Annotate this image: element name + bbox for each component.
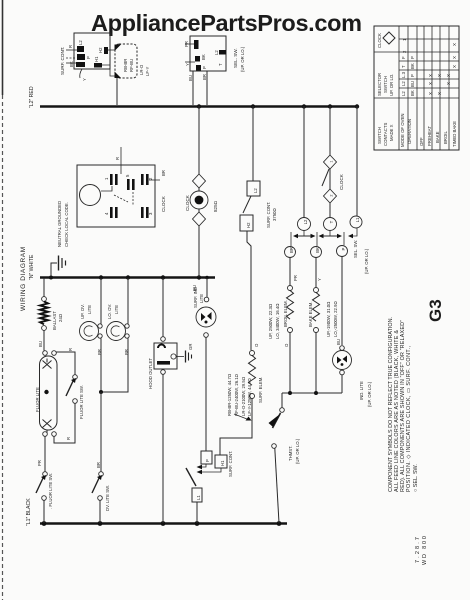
switch DV LITE SW — [92, 392, 110, 523]
svg-text:RB-BR-1250W, 44.7Ω: RB-BR-1250W, 44.7Ω — [227, 373, 232, 416]
selector terminals L2 T L1 — [298, 106, 363, 231]
svg-text:X: X — [446, 82, 451, 85]
svg-text:X: X — [452, 65, 457, 68]
svg-text:LO,-2500W, 22.9Ω: LO,-2500W, 22.9Ω — [333, 301, 338, 337]
svg-text:BAKE: BAKE — [435, 131, 440, 143]
svg-text:BK: BK — [410, 90, 415, 96]
clock motor branch 825ohm — [185, 106, 218, 277]
wire N neutral bus — [40, 276, 215, 279]
wire element to L2 bus — [116, 78, 118, 105]
svg-text:24Ω: 24Ω — [58, 313, 63, 322]
svg-text:SEL. SW.: SEL. SW. — [233, 48, 238, 68]
notes text block — [388, 317, 419, 492]
svg-text:L2: L2 — [214, 50, 219, 55]
svg-text:1: 1 — [330, 160, 334, 162]
svg-text:RB-BR: RB-BR — [123, 59, 128, 72]
resistor SURF ELEM — [249, 343, 264, 403]
svg-text:SWITCH: SWITCH — [377, 127, 382, 144]
svg-text:. FLUOR LITE SW.: . FLUOR LITE SW. — [48, 473, 53, 509]
svg-text:X: X — [437, 92, 442, 95]
svg-text:NEUTRAL GROUNDED: NEUTRAL GROUNDED — [57, 201, 62, 247]
svg-text:L1: L1 — [196, 495, 201, 500]
svg-text:BR: BR — [97, 349, 102, 355]
svg-text:R: R — [68, 348, 73, 351]
svg-text:MADE X: MADE X — [389, 124, 394, 141]
selector wiper arrows — [285, 228, 370, 274]
svg-text:H1: H1 — [220, 460, 225, 466]
switch FLUOR LITE SW main — [36, 436, 53, 523]
svg-text:UP,-1900W, 31.0Ω: UP,-1900W, 31.0Ω — [326, 301, 331, 337]
svg-text:CLOCK: CLOCK — [161, 195, 166, 212]
svg-text:PR: PR — [293, 275, 298, 281]
svg-text:G3: G3 — [426, 299, 445, 322]
svg-text:L2: L2 — [253, 188, 258, 193]
svg-text:BR: BR — [161, 170, 166, 176]
wire thermostat link — [282, 392, 342, 394]
svg-text:LF-Y: LF-Y — [145, 67, 150, 76]
svg-text:“L2” RED: “L2” RED — [29, 86, 35, 108]
svg-text:X: X — [428, 82, 433, 85]
svg-text:SURF. CONT.: SURF. CONT. — [266, 202, 271, 229]
selector switch SEL.SW box — [184, 36, 245, 72]
resistor BROIL ELEM — [268, 258, 298, 394]
svg-text:(UP. OR LO.): (UP. OR LO.) — [364, 248, 369, 274]
svg-text:UP. OV.: UP. OV. — [80, 304, 85, 319]
svg-text:“L1” BLACK: “L1” BLACK — [26, 498, 32, 526]
ballast BALLAST 24ohm — [38, 278, 63, 351]
svg-text:F: F — [401, 56, 406, 59]
svg-text:H2: H2 — [246, 222, 251, 228]
svg-text:X: X — [452, 56, 457, 59]
svg-text:LITE: LITE — [114, 305, 119, 314]
svg-text:SURF. CONT.: SURF. CONT. — [60, 47, 65, 75]
svg-text:SURF. ELEM.: SURF. ELEM. — [258, 376, 263, 403]
svg-text:FLUOR LITE: FLUOR LITE — [35, 387, 40, 412]
svg-text:CLOCK: CLOCK — [339, 173, 344, 190]
surf unit control SURF.CONT #1 — [60, 33, 110, 81]
svg-text:P: P — [205, 459, 210, 462]
surf control bottom contacts — [186, 337, 252, 523]
pin H2 — [104, 47, 108, 54]
svg-text:MODE OF OVEN: MODE OF OVEN — [400, 114, 405, 147]
svg-text:Y: Y — [317, 278, 322, 281]
svg-text:PREHEAT: PREHEAT — [427, 126, 432, 146]
svg-text:HOOD OUTLET: HOOD OUTLET — [148, 358, 153, 389]
svg-text:T: T — [218, 63, 223, 66]
svg-text:Y: Y — [185, 63, 190, 66]
resistor BAKE ELEM — [308, 258, 338, 394]
svg-text:BU: BU — [188, 75, 193, 81]
svg-text:WIRING DIAGRAM: WIRING DIAGRAM — [20, 246, 27, 311]
thermostat THMST — [269, 393, 301, 523]
svg-text:LO. OV.: LO. OV. — [107, 304, 112, 319]
wire BR sel sw to bus — [206, 71, 208, 105]
svg-text:SELECTOR: SELECTOR — [377, 73, 382, 96]
svg-text:X: X — [437, 74, 442, 77]
svg-text:SEL. SW.: SEL. SW. — [353, 240, 358, 258]
svg-text:P: P — [86, 56, 91, 59]
clock terminal box CLOCK — [77, 147, 166, 227]
svg-text:RF-BU: RF-BU — [129, 59, 134, 72]
outlet HOOD OUTLET — [148, 278, 193, 523]
svg-text:P: P — [202, 66, 207, 69]
svg-text:LR-O-2100W, 29.5Ω: LR-O-2100W, 29.5Ω — [241, 376, 246, 416]
lamp LO OV LITE — [99, 278, 129, 394]
svg-text:LITE: LITE — [87, 305, 92, 314]
svg-text:P: P — [341, 247, 346, 250]
switch FLUOR LITE SW right branch — [54, 348, 84, 443]
wire L2 RED bus — [40, 105, 358, 108]
element ratings callout — [227, 373, 252, 420]
svg-text:L2: L2 — [401, 81, 406, 86]
heater element loop RB/RF — [102, 44, 150, 78]
pin H1 — [94, 63, 102, 68]
svg-text:R: R — [66, 437, 71, 440]
svg-text:BROIL: BROIL — [443, 130, 448, 144]
svg-text:BALLAST: BALLAST — [52, 311, 57, 330]
svg-text:GR: GR — [188, 344, 193, 350]
lamp UP OV LITE — [80, 278, 103, 392]
svg-text:LITE: LITE — [199, 294, 204, 303]
svg-text:X: X — [428, 74, 433, 77]
svg-text:UP, 2500W, 22.3Ω: UP, 2500W, 22.3Ω — [268, 303, 273, 339]
svg-text:LF-Y-1250W, 44.7Ω: LF-Y-1250W, 44.7Ω — [247, 378, 252, 416]
svg-text:3750Ω: 3750Ω — [272, 207, 277, 221]
clock switch column — [322, 106, 344, 217]
svg-text:BK: BK — [410, 63, 415, 69]
lamp SURF IND LITE — [193, 278, 216, 337]
svg-text:THMST.: THMST. — [288, 445, 293, 461]
wire L1 BLACK bus — [40, 522, 287, 525]
ground neutral grounded — [51, 201, 69, 276]
svg-text:L2: L2 — [78, 40, 83, 45]
svg-text:R: R — [68, 45, 73, 48]
svg-text:(UP. OR LO.): (UP. OR LO.) — [240, 46, 245, 72]
svg-text:T: T — [401, 65, 406, 68]
svg-text:RF-BU-2400W, 26.1Ω: RF-BU-2400W, 26.1Ω — [234, 373, 239, 416]
svg-text:X: X — [446, 74, 451, 77]
svg-text:H2: H2 — [98, 47, 103, 53]
svg-text:X: X — [452, 43, 457, 46]
surf control #2 column — [240, 106, 277, 350]
svg-text:BR: BR — [96, 462, 101, 468]
svg-text:BK: BK — [69, 61, 74, 67]
svg-text:IND. LITE: IND. LITE — [359, 381, 364, 400]
svg-text:BR: BR — [124, 349, 129, 355]
svg-text:BU: BU — [410, 81, 415, 87]
svg-text:AppliancePartsPros.com: AppliancePartsPros.com — [91, 10, 362, 36]
svg-text:LO, 3400W, 16.4Ω: LO, 3400W, 16.4Ω — [275, 303, 280, 339]
scan page edge — [2, 0, 4, 95]
svg-text:POSITION. ◇ INDICATED CLOCK, ▭: POSITION. ◇ INDICATED CLOCK, ▭ SURF. CON… — [406, 346, 412, 493]
svg-text:(UP. OR LO.): (UP. OR LO.) — [295, 438, 300, 464]
switch contact table — [374, 26, 459, 150]
wire BU sel sw to bus — [192, 71, 194, 105]
svg-text:Y: Y — [82, 78, 87, 81]
svg-text:BR: BR — [289, 247, 294, 253]
svg-text:SURF. IND: SURF. IND — [193, 287, 198, 308]
svg-text:BROIL ELEM.: BROIL ELEM. — [283, 300, 288, 327]
svg-text:R: R — [115, 157, 120, 160]
svg-text:“N” WHITE: “N” WHITE — [29, 254, 35, 280]
svg-text:P: P — [410, 56, 415, 59]
svg-text:BK: BK — [201, 54, 206, 60]
svg-text:H1: H1 — [94, 56, 99, 62]
svg-text:SWITCH: SWITCH — [383, 76, 388, 93]
svg-text:FLUOR LITE SW.: FLUOR LITE SW. — [79, 385, 84, 419]
svg-text:BAKE ELEM.: BAKE ELEM. — [308, 301, 313, 327]
svg-text:2: 2 — [330, 194, 334, 196]
svg-text:L.3: L.3 — [401, 71, 406, 78]
node L2 bus dots — [197, 104, 359, 108]
svg-text:T: T — [329, 220, 334, 223]
svg-text:BK: BK — [315, 247, 320, 253]
svg-text:UP. OR LO.: UP. OR LO. — [389, 74, 394, 96]
svg-text:CLOCK: CLOCK — [377, 33, 382, 48]
svg-text:BU: BU — [38, 341, 43, 347]
svg-text:P: P — [410, 74, 415, 77]
fluorescent tube FLUOR LITE — [35, 351, 57, 437]
svg-text:○ SEL. SW.: ○ SEL. SW. — [413, 464, 419, 492]
svg-text:X: X — [428, 92, 433, 95]
svg-text:OFF: OFF — [419, 137, 424, 146]
svg-text:L2: L2 — [303, 219, 308, 224]
svg-text:CHECK LOCAL CODE.: CHECK LOCAL CODE. — [64, 202, 69, 247]
svg-text:BU: BU — [336, 339, 341, 345]
lamp IND LITE — [333, 257, 373, 408]
svg-text:TIMED BAKE: TIMED BAKE — [452, 121, 457, 147]
svg-text:PR: PR — [37, 460, 42, 466]
svg-text:BR: BR — [202, 74, 207, 80]
svg-text:(UP. OR LO.): (UP. OR LO.) — [367, 381, 372, 407]
svg-text:CONTACTS: CONTACTS — [383, 123, 388, 146]
svg-text:CLOCK: CLOCK — [185, 194, 190, 211]
svg-text:L1: L1 — [355, 217, 360, 222]
svg-text:SURF. CONT.: SURF. CONT. — [228, 451, 233, 478]
svg-text:L2: L2 — [401, 91, 406, 96]
svg-text:825Ω: 825Ω — [213, 200, 218, 212]
svg-text:DV. LITE SW.: DV. LITE SW. — [105, 485, 110, 511]
svg-text:OPERATION: OPERATION — [407, 119, 412, 144]
svg-text:LR-O: LR-O — [139, 64, 144, 75]
